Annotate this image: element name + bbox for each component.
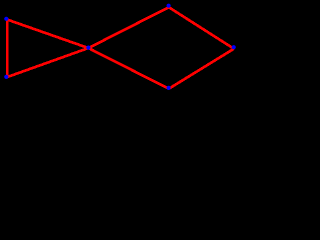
wire edge A-B (left vertical)	[6, 19, 9, 77]
wire edge D-E	[169, 7, 234, 49]
wire edge C-F	[88, 48, 168, 89]
wire edge A-C	[6, 19, 88, 48]
node B (bottom-left vertex)	[4, 75, 8, 79]
wire edge C-D	[88, 7, 168, 48]
wire edge E-F	[169, 49, 234, 89]
node A (top-left vertex)	[4, 17, 8, 21]
node E (right vertex)	[232, 45, 236, 49]
node D (top-right vertex)	[167, 4, 171, 8]
wire edge B-C	[6, 48, 88, 77]
node F (bottom-right vertex)	[167, 86, 171, 90]
node C (middle vertex)	[86, 46, 90, 50]
